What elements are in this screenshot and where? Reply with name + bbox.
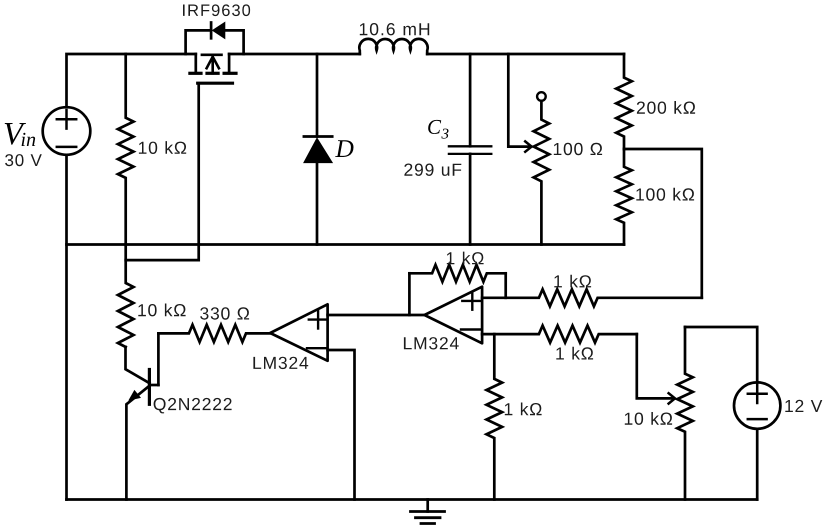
label 100 Ohm	[554, 143, 602, 155]
label 330 Ohm	[200, 307, 249, 319]
U1 plus marker	[309, 311, 327, 329]
wire P1 wiper from output rail	[508, 54, 531, 147]
Q1 base lead	[149, 384, 158, 387]
wire top rail left segment (Vin top to MOSFET source stub)	[67, 54, 196, 107]
transistor M1 channel bar right	[223, 72, 238, 75]
P1 wiper arrowhead	[525, 141, 531, 151]
label 30 V	[5, 154, 42, 166]
resistor R1 10 kOhm (input divider upper)	[118, 54, 134, 245]
wire left edge vertical (Vin minus down to bottom bus)	[65, 155, 68, 500]
diode D cathode lead	[316, 54, 319, 137]
wire bottom ground bus	[67, 498, 758, 501]
transistor M1 channel bar middle	[205, 72, 219, 75]
resistor R7 1 kOhm to ground	[487, 334, 503, 499]
label 1 kOhm R7	[505, 403, 542, 416]
capacitor C3 bottom lead	[469, 154, 472, 245]
label 12 V	[785, 400, 822, 412]
wire gate lead of IRF9630 down to 10k node	[126, 83, 199, 260]
label C3	[428, 120, 448, 139]
capacitor C3 top lead	[469, 54, 472, 146]
label 100 kOhm	[636, 188, 694, 201]
label 10 kOhm P2	[625, 412, 672, 425]
label 200 kOhm	[637, 101, 695, 114]
transistor M1 drain stub	[228, 54, 231, 72]
label 1 kOhm R6	[556, 347, 593, 360]
transistor M1 bulk arrow	[207, 57, 219, 74]
label LM324 U2	[404, 337, 459, 349]
wire P2 top to 12V plus	[685, 327, 757, 382]
voltage source V2 12 V	[734, 382, 780, 428]
label Vin	[5, 123, 36, 146]
transistor M1 body diode triangle	[213, 22, 225, 38]
capacitor C3 top plate	[449, 145, 491, 147]
wire middle return bus	[67, 243, 625, 246]
U2 plus marker	[462, 292, 481, 310]
wire top rail middle segment (MOSFET drain stub to inductor)	[229, 53, 360, 56]
label 10 kOhm R9	[138, 304, 185, 317]
label D	[335, 140, 353, 157]
resistor R3 100 kOhm	[616, 149, 632, 245]
Q1 emitter arrowhead	[128, 390, 141, 401]
op-amp U2 LM324 triangle	[425, 287, 483, 344]
U2 minus marker	[461, 328, 480, 330]
label Q2N2222	[154, 398, 232, 414]
transistor M1 body-diode loop right	[225, 30, 244, 54]
U1 minus marker	[307, 347, 326, 349]
wire U2 minus wire to pot wiper	[637, 334, 674, 398]
resistor R2 200 kOhm	[616, 54, 632, 149]
resistor R6 1 kOhm to U2 minus input	[482, 326, 637, 343]
capacitor C3 bottom plate	[449, 153, 491, 155]
label 1 kOhm R4	[447, 252, 484, 265]
label 299 uF	[404, 164, 461, 176]
transistor M1 channel bar left	[188, 72, 202, 75]
wire top rail right segment (inductor to output node)	[427, 53, 624, 56]
wire divider tap to op-amp input	[624, 149, 702, 298]
P2 wiper arrowhead	[669, 393, 675, 403]
voltage source Vin 30 V	[43, 107, 91, 155]
wire feedback right vertical	[504, 273, 507, 298]
Q1 collector	[126, 347, 150, 383]
transistor M1 source stub	[194, 54, 197, 72]
label 10 kOhm R1	[139, 141, 186, 154]
diode D anode lead	[316, 163, 319, 245]
wire U1 minus input to ground	[328, 350, 355, 500]
resistor R8 330 Ohm	[158, 325, 270, 342]
potentiometer P2 10 kOhm body	[677, 327, 693, 500]
Q1 emitter	[126, 386, 149, 500]
transistor M1 body diode cathode bar	[210, 23, 213, 39]
wire U2 output to U1 plus input	[328, 314, 425, 317]
label LM324 U1	[253, 357, 308, 369]
wire feedback left vertical	[408, 273, 411, 315]
label IRF9630	[183, 4, 250, 16]
transistor Q1 Q2N2222 base bar	[148, 370, 151, 405]
resistor R5 1 kOhm to U2 plus input	[482, 289, 702, 306]
transistor M1 IRF9630 body-diode loop left	[186, 30, 210, 54]
ground symbol	[411, 500, 445, 524]
wire base lead vertical	[157, 333, 160, 385]
wire 12V minus to bottom bus	[756, 429, 759, 500]
transistor M1 body tie bar	[201, 53, 223, 56]
transistor M1 gate bar	[198, 82, 233, 85]
resistor R4 1 kOhm feedback	[409, 265, 505, 282]
potentiometer P1 100 Ohm terminal circle	[537, 92, 546, 101]
diode D cathode bar	[304, 135, 332, 138]
label 1 kOhm R5	[554, 275, 591, 288]
potentiometer P1 100 Ohm body	[534, 101, 550, 245]
resistor R9 10 kOhm (base drive upper)	[118, 245, 134, 348]
diode D triangle	[304, 138, 332, 162]
inductor L1 10.6 mH	[359, 39, 427, 54]
op-amp U1 LM324 triangle	[270, 304, 327, 361]
label 10.6 mH	[360, 23, 429, 35]
